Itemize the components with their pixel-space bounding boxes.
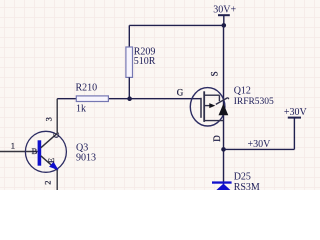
wire Q3 emitter vertical	[56, 170, 58, 190]
mosfet Q12 bulk arrow	[209, 103, 215, 108]
wire R209 bottom vertical	[128, 77, 130, 98]
wire long vertical S/D net	[223, 25, 225, 190]
mosfet Q12 body diode cathode slash	[216, 98, 228, 105]
svg-text:E: E	[46, 158, 56, 163]
wire Q3 base horizontal	[0, 151, 38, 153]
svg-text:IRFR5305: IRFR5305	[234, 97, 274, 107]
resistor R210 body	[76, 96, 108, 102]
transistor Q3 circle	[25, 131, 66, 172]
svg-text:RS3M: RS3M	[234, 182, 260, 190]
mosfet Q12 body diode triangle	[219, 104, 229, 116]
power port +30V bar	[288, 117, 301, 119]
resistor R209 body	[126, 47, 133, 77]
diode D25 triangle	[214, 184, 234, 193]
mosfet Q12 gate bar	[200, 98, 202, 118]
junction dot at 30V+ node	[222, 23, 227, 28]
mosfet Q12 bottom horizontal	[204, 120, 223, 122]
svg-text:R210: R210	[76, 83, 98, 94]
svg-text:Q12: Q12	[234, 86, 251, 97]
svg-text:+30V: +30V	[248, 139, 272, 150]
wire +30V vertical	[293, 118, 295, 150]
mosfet Q12 ellipse	[190, 88, 225, 126]
svg-text:B: B	[32, 146, 38, 156]
svg-text:510R: 510R	[134, 56, 156, 67]
svg-text:G: G	[177, 87, 184, 97]
transistor Q3 emitter arrow	[49, 162, 59, 171]
svg-text:1: 1	[11, 140, 15, 150]
junction dot at drain node	[221, 147, 226, 152]
svg-text:9013: 9013	[76, 153, 96, 164]
wire top horizontal from R209 to 30V+ junction	[129, 24, 224, 26]
junction dot at gate net	[127, 96, 132, 101]
mosfet Q12 channel bar	[203, 91, 205, 122]
wire gate net horizontal	[57, 98, 201, 100]
transistor Q3 base bar	[38, 140, 42, 165]
transistor Q3 emitter line	[41, 156, 58, 171]
svg-text:S: S	[209, 71, 219, 76]
mosfet Q12 top horizontal	[204, 94, 219, 96]
svg-text:1k: 1k	[76, 104, 86, 115]
wire Q3 collector vertical	[56, 99, 58, 134]
power port 30V+ stub wire	[223, 15, 225, 25]
mosfet Q12 top drop segment	[218, 95, 220, 101]
mosfet Q12 middle line	[204, 105, 210, 107]
wire R209 top vertical	[128, 25, 130, 47]
svg-text:2: 2	[43, 180, 53, 184]
mosfet Q12 cathode slash tick	[228, 98, 229, 100]
svg-text:+30V: +30V	[284, 107, 308, 118]
svg-text:C: C	[51, 132, 61, 138]
diode D25 cathode bar	[212, 181, 232, 183]
transistor Q3 collector line	[41, 133, 58, 148]
wire +30V horizontal	[224, 148, 295, 150]
svg-text:30V+: 30V+	[213, 4, 236, 15]
power port 30V+ bar	[218, 14, 230, 16]
svg-text:D: D	[212, 135, 222, 142]
svg-text:3: 3	[43, 117, 53, 121]
